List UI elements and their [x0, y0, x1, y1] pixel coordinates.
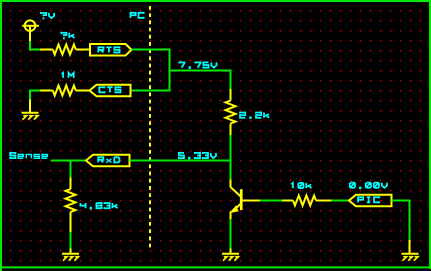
wire R4 to ground — [70, 232, 72, 250]
label 0.00V — [350, 183, 387, 190]
wire ground corner to R3 — [30, 91, 40, 100]
label 7.75V — [179, 62, 216, 69]
wire RTS to vertical — [132, 49, 171, 51]
label 1M — [62, 73, 74, 78]
label RTS — [98, 47, 119, 52]
net tag CTS — [90, 85, 131, 97]
label PIC — [358, 197, 379, 202]
label PC — [131, 13, 144, 18]
ground under Q1 — [222, 249, 239, 261]
label ?k — [61, 33, 74, 40]
net tag RTS — [90, 44, 132, 56]
label RxD — [98, 157, 119, 162]
PC boundary dashed line — [149, 6, 151, 250]
wire R2 to collector — [230, 135, 232, 181]
wire PIC to right ground — [392, 201, 410, 242]
wire base pin — [242, 200, 261, 202]
voltage probe ?V symbol — [22, 20, 39, 41]
net tag PIC — [349, 195, 392, 207]
label 2.2k — [240, 113, 269, 120]
label ?V — [41, 13, 54, 20]
ground under 1M — [22, 100, 39, 120]
resistor ?k (RTS series) — [40, 45, 90, 55]
transistor Q1 NPN — [229, 180, 242, 220]
resistor 2.2k — [226, 89, 236, 136]
wire base to R5 — [260, 200, 283, 202]
resistor 4.83k — [66, 178, 76, 234]
wire emitter to ground — [230, 219, 232, 250]
wire probe to R1 — [30, 41, 40, 50]
resistor 1M (CTS series) — [40, 86, 90, 96]
label CTS — [99, 87, 120, 92]
wire vertical RTS-CTS — [169, 50, 171, 92]
label 5.33V — [179, 153, 216, 160]
label 10k — [291, 183, 311, 188]
resistor 10k — [282, 196, 332, 206]
label 4.83k — [80, 203, 117, 210]
wire to 7.75V rail — [170, 70, 232, 72]
wire rail down to R2 — [230, 70, 232, 90]
wire Sense to RxD — [51, 160, 87, 162]
label Sense — [10, 153, 47, 158]
wire R5 to PIC tag — [332, 200, 351, 202]
ground under 4.83k — [62, 249, 79, 261]
wire CTS to vertical — [131, 90, 171, 92]
net tag RxD — [86, 155, 130, 167]
wire RxD to collector node — [130, 160, 232, 162]
wire Sense node down to R4 — [70, 161, 72, 179]
ground right — [402, 240, 419, 261]
